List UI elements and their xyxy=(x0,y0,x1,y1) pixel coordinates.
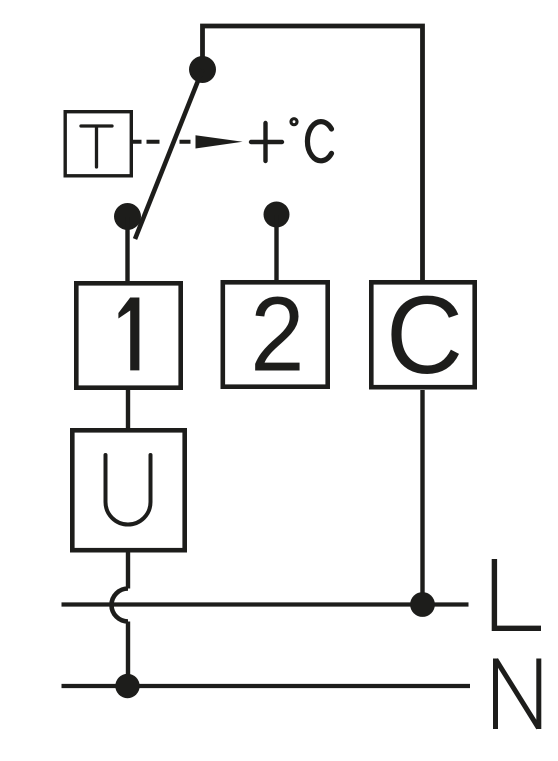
switch blade (diagonal contact arm) xyxy=(135,70,203,240)
terminal box 1 xyxy=(76,283,180,387)
svg-text:2: 2 xyxy=(250,275,304,394)
node: terminal dot above box 1 xyxy=(114,203,141,230)
label 1 xyxy=(118,298,139,371)
wire: box 1 to box U xyxy=(126,390,130,428)
label U glyph xyxy=(106,455,151,525)
label C (celsius) xyxy=(307,122,331,161)
label degree symbol xyxy=(291,119,297,125)
arrowhead of actuation line xyxy=(196,135,243,148)
node: terminal dot above box 2 xyxy=(264,202,290,228)
dashed actuation line from T xyxy=(133,140,191,144)
node: switch pivot junction dot xyxy=(189,56,216,83)
svg-text:C: C xyxy=(386,274,463,397)
wire: box U down to hop xyxy=(126,553,130,589)
label L (line) xyxy=(494,559,541,628)
thermostat box T xyxy=(65,112,131,176)
wire: N line xyxy=(62,684,471,688)
wire: hop down to N line xyxy=(126,622,130,687)
terminal box 2 xyxy=(223,282,328,386)
node: junction dot U-N xyxy=(115,674,139,698)
wire: dot to box 2 xyxy=(274,215,278,282)
wire: box C down to L line xyxy=(420,390,424,605)
label N (neutral) xyxy=(496,659,539,730)
node: junction dot C-L xyxy=(410,592,435,617)
wire: L line xyxy=(62,602,469,606)
label plus sign xyxy=(251,123,282,161)
load box U xyxy=(72,430,184,550)
label T glyph xyxy=(81,126,112,167)
wire hop over L line xyxy=(112,589,129,622)
terminal box C xyxy=(371,282,474,387)
wire: top loop from switch node to box C xyxy=(203,26,423,282)
wire: dot to box 1 xyxy=(125,217,129,283)
